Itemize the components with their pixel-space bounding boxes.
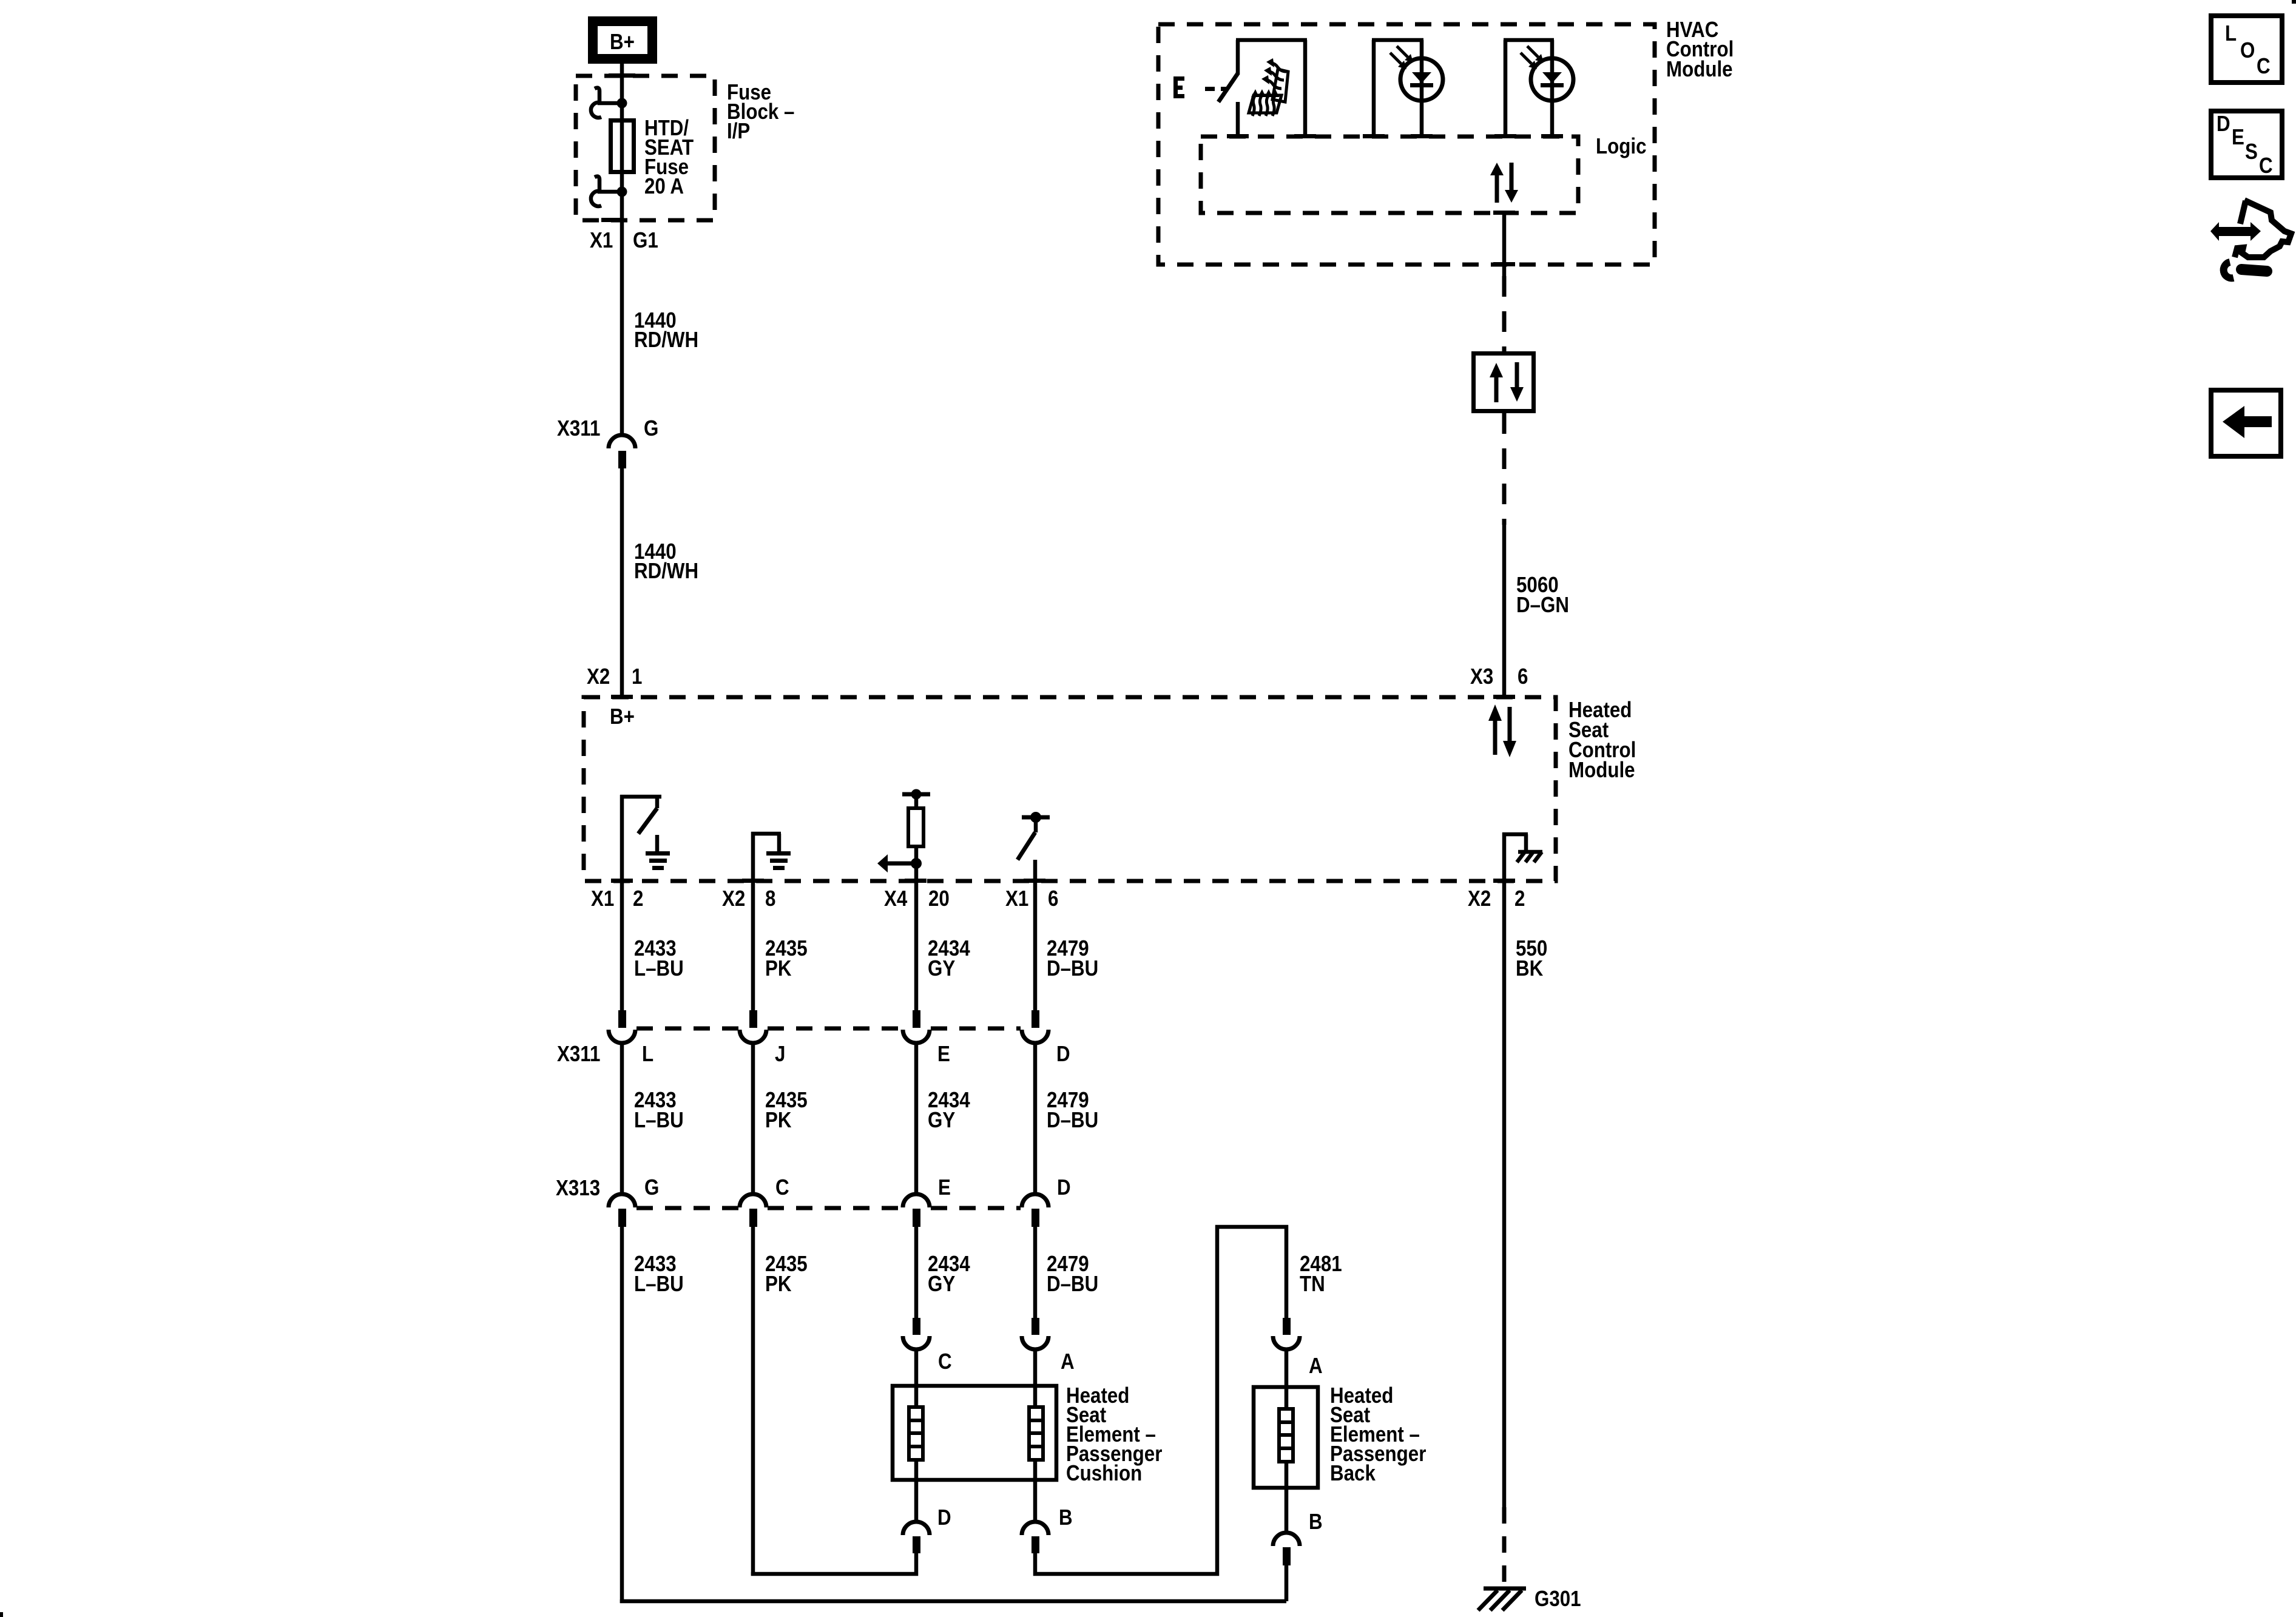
label A xyxy=(1061,1349,1075,1374)
wire 550 BK module to G301 xyxy=(1502,881,1507,1585)
pin labels X2 / 8 xyxy=(722,886,775,911)
svg-text:C: C xyxy=(938,1349,952,1374)
svg-text:L: L xyxy=(2225,21,2237,46)
svg-text:BK: BK xyxy=(1516,956,1544,981)
labels X311 L J E D xyxy=(557,1042,1070,1067)
connector pin A (back element) xyxy=(1273,1318,1300,1407)
serial data symbol box xyxy=(1474,354,1534,411)
wire 2434 X313 to element C xyxy=(914,1227,919,1318)
svg-text:D–BU: D–BU xyxy=(1047,956,1098,981)
svg-text:GY: GY xyxy=(928,1108,955,1133)
pin labels X1 / 6 xyxy=(1005,886,1058,911)
svg-text:2: 2 xyxy=(633,886,643,911)
label 1440 RD/WH (upper) xyxy=(634,308,698,353)
svg-text:L–BU: L–BU xyxy=(634,956,684,981)
heated seat control module dashed box xyxy=(584,695,1556,883)
svg-text:D: D xyxy=(1057,1175,1071,1200)
svg-text:C: C xyxy=(775,1175,789,1200)
labels X313 G C E D xyxy=(556,1175,1071,1201)
pin labels X1 / 2 xyxy=(591,886,643,911)
label 2481 TN xyxy=(1300,1252,1342,1297)
label B xyxy=(1059,1505,1073,1530)
svg-text:PK: PK xyxy=(765,1272,792,1297)
wire 2433 X311 to X313 xyxy=(620,1044,624,1193)
svg-text:X1: X1 xyxy=(591,886,614,911)
connector pin A (cushion element) xyxy=(1022,1318,1048,1405)
svg-text:Back: Back xyxy=(1330,1461,1376,1486)
pin labels X3 / 6 xyxy=(1470,664,1528,689)
sense resistor with wiper arrow (X4-20) xyxy=(877,789,930,882)
svg-text:B: B xyxy=(1059,1505,1073,1530)
node B+ inside module xyxy=(610,704,635,729)
label 550 BK xyxy=(1516,936,1547,981)
connector X313 pin G xyxy=(609,1194,635,1227)
heated seat icon xyxy=(1249,58,1288,116)
label HTD/SEAT Fuse 20 A xyxy=(644,116,694,199)
svg-text:X311: X311 xyxy=(557,416,600,441)
label 2435 PK (row 1) xyxy=(765,936,808,981)
ground symbol (X1-2 driver) xyxy=(646,851,670,870)
connector pin B (cushion element) xyxy=(1022,1522,1048,1572)
nav icon DESC xyxy=(2211,111,2282,178)
label 2434 GY (row 3) xyxy=(928,1252,970,1297)
svg-text:X313: X313 xyxy=(556,1176,600,1201)
link wire 2435 to element D xyxy=(753,1572,916,1574)
svg-text:J: J xyxy=(775,1042,785,1067)
ground symbol (X2-8) xyxy=(766,851,791,870)
wire 1440 RD/WH fuse to X311 xyxy=(620,192,624,436)
fuse HTD/SEAT 20 A xyxy=(611,103,634,192)
svg-text:RD/WH: RD/WH xyxy=(634,559,698,584)
heater element right (cushion) xyxy=(1027,1407,1045,1460)
label Heated Seat Element - Passenger Back xyxy=(1330,1383,1426,1486)
internal chassis ground (X2-2) xyxy=(1502,832,1542,881)
label G301 xyxy=(1535,1587,1581,1612)
svg-text:GY: GY xyxy=(928,1272,955,1297)
fuse clip lower with junction xyxy=(591,177,627,206)
node E (switch feed) xyxy=(1173,76,1227,98)
serial data line to heated seat module xyxy=(1502,413,1507,695)
svg-text:E: E xyxy=(2232,125,2244,150)
fuse block I/P dashed box xyxy=(576,73,715,222)
heated seat element passenger back box xyxy=(1254,1387,1318,1488)
label Logic xyxy=(1596,134,1646,159)
connector X311 pin J xyxy=(740,1010,766,1043)
serial data arrows at X3-6 inside module xyxy=(1488,704,1516,757)
svg-text:X1: X1 xyxy=(590,228,613,253)
svg-text:X311: X311 xyxy=(557,1042,600,1067)
svg-text:X2: X2 xyxy=(1468,886,1491,911)
nav icon hand with wrench xyxy=(2210,200,2291,278)
wire 2481 TN loop xyxy=(1217,1227,1286,1318)
heater element left (cushion) xyxy=(907,1407,925,1460)
splice run 2433 to back element xyxy=(622,1599,1286,1601)
wire 1440 RD/WH X311 to module xyxy=(620,468,624,695)
svg-text:B: B xyxy=(1309,1510,1323,1534)
connector pin C (cushion element) xyxy=(903,1318,930,1405)
connector pin B (back element) xyxy=(1273,1533,1300,1601)
pin labels X2 / 2 xyxy=(1468,886,1525,911)
svg-text:6: 6 xyxy=(1048,886,1058,911)
label 2479 D-BU (row 3) xyxy=(1047,1252,1098,1297)
label Fuse Block - I/P xyxy=(727,80,794,144)
internal ground (X2-8) xyxy=(751,832,781,881)
svg-text:E: E xyxy=(938,1175,951,1200)
svg-text:G: G xyxy=(644,416,658,441)
connector X313 pin E xyxy=(903,1194,930,1227)
label 2434 GY (row 1) xyxy=(928,936,970,981)
link wire element B to 2481 loop xyxy=(1035,1229,1217,1574)
HVAC control module dashed box xyxy=(1158,24,1655,266)
svg-text:RD/WH: RD/WH xyxy=(634,328,698,353)
label X311 G xyxy=(557,416,658,441)
connector X311 pin L xyxy=(609,1010,635,1043)
svg-text:GY: GY xyxy=(928,956,955,981)
label Heated Seat Control Module xyxy=(1568,698,1636,783)
wire 2434 X311 to X313 xyxy=(914,1044,919,1193)
page mark bottom left xyxy=(0,1612,3,1617)
wire 2433 module to X311 xyxy=(620,881,624,1010)
wire 2435 module to X311 xyxy=(751,881,755,1010)
label 2433 L-BU (row 1) xyxy=(634,936,684,981)
pin labels X2 / 1 xyxy=(587,664,642,689)
connector X313 pin D xyxy=(1022,1194,1048,1227)
svg-text:X3: X3 xyxy=(1470,664,1493,689)
connector pin D (cushion element) xyxy=(903,1522,930,1572)
label 2479 D-BU (row 2) xyxy=(1047,1088,1098,1133)
connector X311 pin E xyxy=(903,1010,930,1043)
LED indicator 2 xyxy=(1504,40,1573,137)
svg-text:X1: X1 xyxy=(1005,886,1028,911)
svg-text:L–BU: L–BU xyxy=(634,1108,684,1133)
wire element B lead (cushion) xyxy=(1033,1462,1038,1522)
fuse clip upper with junction xyxy=(591,88,627,118)
svg-text:D–BU: D–BU xyxy=(1047,1272,1098,1297)
nav icon LOC xyxy=(2211,16,2282,83)
temperature switch (X1-6) xyxy=(1018,812,1050,881)
serial data line from logic xyxy=(1502,213,1507,351)
svg-text:S: S xyxy=(2245,140,2258,164)
wire 2479 X313 to element A xyxy=(1033,1227,1038,1318)
svg-text:PK: PK xyxy=(765,1108,792,1133)
svg-text:D–BU: D–BU xyxy=(1047,1108,1098,1133)
svg-text:Logic: Logic xyxy=(1596,134,1646,159)
svg-text:20: 20 xyxy=(928,886,950,911)
label A (back) xyxy=(1309,1354,1323,1379)
power feed B+ xyxy=(593,21,652,59)
svg-text:L–BU: L–BU xyxy=(634,1272,684,1297)
svg-text:Cushion: Cushion xyxy=(1066,1461,1142,1486)
wire element D lead xyxy=(914,1462,919,1522)
wire back element B lead xyxy=(1285,1463,1289,1531)
svg-text:D: D xyxy=(937,1505,951,1530)
label C xyxy=(938,1349,952,1374)
ground G301 xyxy=(1478,1588,1526,1610)
label 1440 RD/WH (lower) xyxy=(634,539,698,584)
svg-text:X4: X4 xyxy=(884,886,908,911)
label HVAC Control Module xyxy=(1666,18,1734,82)
connector X311 pin D xyxy=(1022,1010,1048,1043)
wire from B+ into fuse block xyxy=(620,64,624,103)
svg-text:L: L xyxy=(642,1042,653,1067)
svg-text:6: 6 xyxy=(1518,664,1528,689)
heated seat element passenger cushion box xyxy=(893,1386,1056,1480)
svg-text:1: 1 xyxy=(632,664,642,689)
serial data arrows in logic box xyxy=(1490,163,1518,203)
label 5060 D-GN xyxy=(1516,573,1569,618)
svg-text:X2: X2 xyxy=(722,886,745,911)
nav icon back arrow xyxy=(2211,390,2281,456)
svg-text:G301: G301 xyxy=(1535,1587,1581,1612)
svg-text:B+: B+ xyxy=(610,30,635,55)
wire 2479 module to X311 xyxy=(1033,881,1038,1010)
svg-text:PK: PK xyxy=(765,956,792,981)
label Heated Seat Element - Passenger Cushion xyxy=(1066,1383,1162,1486)
pin labels X1 / G1 xyxy=(590,228,658,253)
svg-text:G1: G1 xyxy=(633,228,658,253)
svg-text:B+: B+ xyxy=(610,704,635,729)
svg-text:TN: TN xyxy=(1300,1272,1325,1297)
svg-text:E: E xyxy=(937,1042,950,1067)
logic dashed box xyxy=(1201,134,1578,215)
label 2435 PK (row 3) xyxy=(765,1252,808,1297)
svg-text:G: G xyxy=(644,1175,659,1200)
connector X313 pin C xyxy=(740,1194,766,1227)
connector X313 row dashed body xyxy=(636,1206,1021,1210)
svg-text:20 A: 20 A xyxy=(644,174,684,199)
svg-text:2: 2 xyxy=(1514,886,1525,911)
label 2433 L-BU (row 3) xyxy=(634,1252,684,1297)
svg-text:C: C xyxy=(2259,154,2273,178)
svg-text:Module: Module xyxy=(1666,57,1733,82)
wire 2435 X311 to X313 xyxy=(751,1044,755,1193)
heated seat switch in HVAC module xyxy=(1218,40,1307,137)
svg-text:O: O xyxy=(2240,38,2255,63)
output driver switch with ground (X1-2) xyxy=(620,795,661,881)
svg-text:8: 8 xyxy=(765,886,775,911)
label D xyxy=(937,1505,951,1530)
label 2433 L-BU (row 2) xyxy=(634,1088,684,1133)
wire 2434 module to X311 xyxy=(914,881,919,1010)
svg-text:C: C xyxy=(2257,54,2271,79)
label 2434 GY (row 2) xyxy=(928,1088,970,1133)
wire 2433 X313 to splice run xyxy=(620,1227,624,1603)
wire 2435 X313 to link run xyxy=(751,1227,755,1576)
svg-text:I/P: I/P xyxy=(727,119,750,144)
svg-text:D: D xyxy=(1056,1042,1070,1067)
LED indicator 1 xyxy=(1372,40,1443,137)
page mark top right xyxy=(2292,0,2296,4)
connector X311 pin G xyxy=(609,435,635,468)
svg-text:D–GN: D–GN xyxy=(1516,593,1569,618)
label B (back) xyxy=(1309,1510,1323,1534)
wire 2479 X311 to X313 xyxy=(1033,1044,1038,1193)
svg-text:A: A xyxy=(1061,1349,1075,1374)
pin labels X4 / 20 xyxy=(884,886,950,911)
svg-text:A: A xyxy=(1309,1354,1323,1379)
label 2479 D-BU (row 1) xyxy=(1047,936,1098,981)
heater element (back) xyxy=(1277,1409,1295,1462)
svg-text:X2: X2 xyxy=(587,664,610,689)
label 2435 PK (row 2) xyxy=(765,1088,808,1133)
connector X311 row dashed body xyxy=(636,1027,1021,1031)
svg-text:Module: Module xyxy=(1568,758,1635,783)
svg-text:D: D xyxy=(2217,112,2230,137)
